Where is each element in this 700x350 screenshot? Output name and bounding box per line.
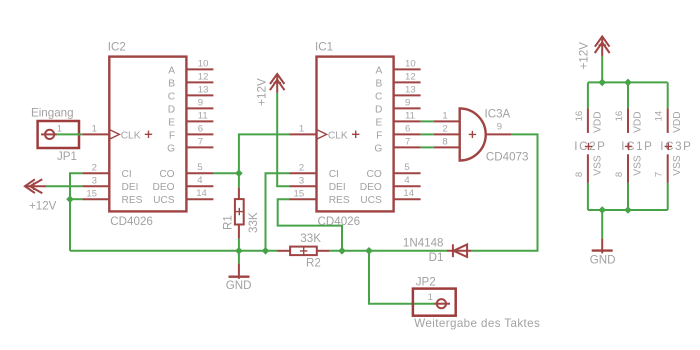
svg-text:DEI: DEI <box>122 182 139 193</box>
wire VDD drop 2 <box>627 82 629 108</box>
wire VSS bus <box>588 209 668 211</box>
svg-text:GND: GND <box>226 279 252 292</box>
wire VDD drop 1 <box>587 82 589 108</box>
IC3P pin 7 VSS <box>667 154 669 183</box>
wire RES branch <box>70 198 82 200</box>
svg-text:VSS: VSS <box>672 155 683 176</box>
IC1 pin 11 E <box>394 120 421 122</box>
svg-text:CO: CO <box>159 169 174 180</box>
IC1 pin 6 F <box>394 133 421 135</box>
svg-text:F: F <box>376 130 382 141</box>
svg-text:4: 4 <box>197 175 203 186</box>
svg-text:1N4148: 1N4148 <box>403 237 444 250</box>
node junction VSS 1 <box>598 206 606 214</box>
IC2 pin 13 C <box>186 94 213 96</box>
IC2 pin 11 E <box>186 120 213 122</box>
svg-text:6: 6 <box>198 123 203 134</box>
supply +12V middle arrow <box>255 74 284 106</box>
svg-text:1: 1 <box>428 292 433 303</box>
IC2 pin 7 G <box>186 146 213 148</box>
IC1 pin 14 UCS <box>394 198 421 200</box>
svg-text:E: E <box>376 117 383 128</box>
svg-text:D: D <box>375 104 382 115</box>
wire junction down to R1 <box>238 173 240 187</box>
svg-text:+12V: +12V <box>255 78 268 106</box>
IC3A pin 8 <box>434 146 460 148</box>
svg-text:D: D <box>168 104 175 115</box>
IC2 pin 5 CO <box>186 172 213 174</box>
IC3A pin 1 <box>434 120 460 122</box>
svg-text:10: 10 <box>198 58 209 69</box>
node junction RES/R2 <box>338 247 346 255</box>
svg-text:15: 15 <box>86 189 97 200</box>
svg-text:14: 14 <box>654 110 665 121</box>
IC3A body <box>460 108 486 160</box>
IC2P pin 8 VSS <box>587 154 589 183</box>
svg-text:DEI: DEI <box>329 182 346 193</box>
svg-text:F: F <box>169 130 175 141</box>
svg-text:G: G <box>374 143 382 154</box>
svg-text:CD4073: CD4073 <box>486 150 529 163</box>
IC2P pin 16 VDD <box>587 108 589 132</box>
IC1 pin 15 RES <box>290 198 317 200</box>
IC1 pin 7 G <box>394 146 421 148</box>
IC1 pin 2 CI <box>290 172 317 174</box>
wire IC1 RES to R2 net <box>278 199 342 251</box>
svg-text:4: 4 <box>404 175 410 186</box>
IC1P pin 16 VDD <box>627 108 629 132</box>
IC2 pin 15 RES <box>82 198 109 200</box>
svg-text:12: 12 <box>405 71 416 82</box>
IC2 pin 10 A <box>186 68 213 70</box>
wire VSS drop 2 <box>627 183 629 210</box>
svg-text:13: 13 <box>198 84 209 95</box>
IC2 pin 6 F <box>186 133 213 135</box>
wire IC2 CO to junction <box>213 172 239 174</box>
svg-text:9: 9 <box>497 122 502 133</box>
node junction R1/GND <box>235 247 243 255</box>
IC3P pin 14 VDD <box>667 108 669 132</box>
svg-text:1: 1 <box>442 110 447 121</box>
svg-text:8: 8 <box>574 172 585 177</box>
IC2 pin 1 CLK <box>82 133 109 135</box>
node junction CO/R1 <box>235 169 243 177</box>
svg-text:D1: D1 <box>429 251 444 264</box>
wire GND bus bottom <box>70 250 277 252</box>
IC2 pin 3 DEI <box>82 185 109 187</box>
node junction VDD 1 <box>598 79 606 87</box>
node junction VSS 2 <box>624 206 632 214</box>
svg-text:7: 7 <box>654 172 665 177</box>
node junction at RES <box>66 195 74 203</box>
svg-text:A: A <box>168 65 175 76</box>
svg-text:3: 3 <box>92 176 97 187</box>
svg-text:CD4026: CD4026 <box>318 215 361 228</box>
wire +12V to IC1 DEI <box>277 93 289 186</box>
wire R1 to GND bus <box>238 239 240 251</box>
wire to diode D1 <box>369 250 447 252</box>
supply +12V right arrow <box>578 37 610 70</box>
svg-text:DEO: DEO <box>153 182 175 193</box>
ground GND left <box>226 251 252 292</box>
IC3A pin 9 output <box>486 133 512 135</box>
svg-text:C: C <box>168 91 175 102</box>
svg-text:DEO: DEO <box>360 182 382 193</box>
wire IC1 G to gate in 8 <box>421 146 434 148</box>
svg-text:C: C <box>375 91 382 102</box>
svg-text:CO: CO <box>367 169 382 180</box>
svg-text:33K: 33K <box>247 212 260 233</box>
svg-text:1: 1 <box>57 124 62 135</box>
svg-text:33K: 33K <box>300 232 321 245</box>
IC1 CD4026 <box>290 41 421 228</box>
IC1 pin 4 DEO <box>394 185 421 187</box>
node junction JP2 drop <box>365 247 373 255</box>
svg-text:2: 2 <box>299 163 304 174</box>
svg-text:E: E <box>168 117 175 128</box>
svg-text:GND: GND <box>590 253 616 266</box>
svg-text:13: 13 <box>405 84 416 95</box>
IC3A pin 2 <box>434 133 460 135</box>
wire R2 to junction <box>330 250 369 252</box>
wire IC1 CI <box>266 173 290 251</box>
power gate IC1P <box>614 108 654 182</box>
svg-text:CLK: CLK <box>121 130 141 141</box>
svg-text:R1: R1 <box>221 215 234 230</box>
svg-text:8: 8 <box>614 172 625 177</box>
svg-text:IC2: IC2 <box>108 41 126 54</box>
IC1 pin 3 DEI <box>290 185 317 187</box>
IC2 pin 2 CI <box>82 172 109 174</box>
wire VDD drop 3 <box>667 82 669 108</box>
svg-text:9: 9 <box>198 97 203 108</box>
supply +12V left arrow <box>25 179 57 212</box>
svg-text:JP2: JP2 <box>416 275 436 288</box>
svg-text:VDD: VDD <box>672 111 683 133</box>
svg-text:6: 6 <box>405 123 410 134</box>
IC1 pin 9 D <box>394 107 421 109</box>
svg-text:2: 2 <box>92 163 97 174</box>
svg-text:16: 16 <box>614 111 625 122</box>
node junction IC1 CI on bus <box>262 247 270 255</box>
svg-text:UCS: UCS <box>153 195 175 206</box>
svg-text:CI: CI <box>122 169 132 180</box>
resistor R1 33K <box>221 188 260 239</box>
svg-text:11: 11 <box>198 110 208 121</box>
wire IC1 E to gate in 1 <box>421 120 434 122</box>
svg-text:15: 15 <box>294 189 305 200</box>
svg-text:VDD: VDD <box>632 111 643 133</box>
svg-text:1: 1 <box>92 124 97 135</box>
svg-text:Weitergabe des Taktes: Weitergabe des Taktes <box>414 317 540 330</box>
svg-text:+12V: +12V <box>578 42 591 70</box>
svg-text:B: B <box>168 78 175 89</box>
wire VSS drop 1 <box>587 183 589 210</box>
svg-text:UCS: UCS <box>360 195 382 206</box>
svg-text:VSS: VSS <box>592 155 603 176</box>
svg-text:7: 7 <box>198 136 203 147</box>
op-amp gate IC3A CD4073 <box>434 107 529 163</box>
connector JP1 <box>31 107 79 163</box>
ground GND right <box>590 239 616 267</box>
svg-text:Eingang: Eingang <box>31 107 74 120</box>
wire IC3A out down to diode <box>471 134 537 250</box>
svg-text:RES: RES <box>122 195 143 206</box>
IC1P pin 8 VSS <box>627 154 629 183</box>
resistor R2 33K <box>277 232 330 269</box>
svg-text:CLK: CLK <box>328 130 348 141</box>
svg-text:8: 8 <box>442 136 447 147</box>
svg-text:+12V: +12V <box>29 200 57 213</box>
IC1 pin 1 CLK <box>290 133 317 135</box>
svg-text:IC1: IC1 <box>315 41 333 54</box>
svg-text:14: 14 <box>403 188 414 199</box>
wire +12V rail top <box>601 56 603 82</box>
wire junction down to JP2 <box>369 251 435 304</box>
svg-text:G: G <box>167 143 175 154</box>
svg-text:1: 1 <box>299 124 304 135</box>
svg-text:A: A <box>376 65 383 76</box>
node junction VDD 2 <box>624 79 632 87</box>
svg-text:R2: R2 <box>306 256 321 269</box>
svg-text:CD4026: CD4026 <box>110 215 153 228</box>
svg-text:2: 2 <box>442 123 447 134</box>
svg-text:10: 10 <box>405 58 416 69</box>
svg-text:16: 16 <box>574 111 585 122</box>
IC1 pin 5 CO <box>394 172 421 174</box>
svg-text:7: 7 <box>405 136 410 147</box>
svg-text:VDD: VDD <box>592 111 603 133</box>
wire IC1 F to gate in 2 <box>421 133 434 135</box>
svg-text:5: 5 <box>197 162 202 173</box>
IC2 pin 9 D <box>186 107 213 109</box>
power gate IC2P <box>574 108 607 182</box>
wire VDD bus <box>588 81 668 83</box>
wire VSS drop 3 <box>667 183 669 210</box>
svg-text:11: 11 <box>405 110 415 121</box>
IC2 pin 14 UCS <box>186 198 213 200</box>
svg-text:JP1: JP1 <box>57 150 77 163</box>
IC1 pin 10 A <box>394 68 421 70</box>
wire junction up to IC1 CLK <box>239 134 290 173</box>
IC2 pin 12 B <box>186 81 213 83</box>
connector JP2 <box>413 275 540 329</box>
svg-text:14: 14 <box>196 188 207 199</box>
svg-text:CI: CI <box>329 169 339 180</box>
svg-text:B: B <box>376 78 383 89</box>
svg-text:VSS: VSS <box>632 155 643 176</box>
svg-text:RES: RES <box>329 195 350 206</box>
wire IC2 CI / RES to GND bus <box>70 173 82 251</box>
svg-text:9: 9 <box>405 97 410 108</box>
wire +12V to IC2 DEI <box>46 185 82 187</box>
diode D1 1N4148 <box>403 237 472 264</box>
svg-text:3: 3 <box>299 176 304 187</box>
wire VSS to GND <box>601 210 603 239</box>
svg-text:12: 12 <box>198 71 209 82</box>
svg-text:IC3A: IC3A <box>485 107 511 120</box>
IC1 pin 12 B <box>394 81 421 83</box>
wire JP1 to IC2 CLK <box>57 133 83 135</box>
IC2 CD4026 <box>82 41 213 228</box>
power gate IC3P <box>654 108 693 182</box>
svg-text:5: 5 <box>404 162 409 173</box>
IC2 pin 4 DEO <box>186 185 213 187</box>
IC1 pin 13 C <box>394 94 421 96</box>
